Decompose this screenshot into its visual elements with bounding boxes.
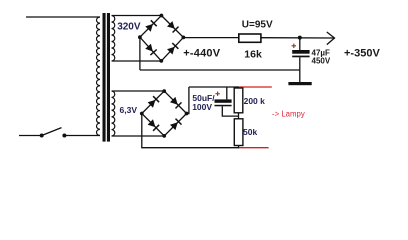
bridge rectifier B1 bbox=[138, 14, 185, 63]
wire bridge1 positive to resistor bbox=[183, 37, 238, 39]
svg-text:50k: 50k bbox=[243, 127, 257, 137]
switch S1 bbox=[40, 128, 67, 138]
wire junction to capacitor C1 bbox=[299, 38, 301, 50]
wire between divider resistors bbox=[238, 113, 240, 119]
resistor 16k bbox=[239, 34, 261, 42]
svg-text:16k: 16k bbox=[244, 49, 262, 61]
output arrow head bbox=[327, 32, 335, 45]
wire bridge1 negative down bbox=[139, 37, 141, 70]
wire secondary2 top to bridge2 AC top bbox=[112, 90, 164, 92]
wire secondary2 bottom to bridge2 AC bottom bbox=[112, 135, 164, 137]
wire bridge2 positive up to heater rail bbox=[187, 87, 189, 114]
svg-text:-> Lampy: -> Lampy bbox=[272, 110, 305, 119]
wire resistor to output arrow bbox=[261, 37, 334, 39]
transformer T1 core bbox=[103, 13, 111, 142]
svg-text:450V: 450V bbox=[312, 57, 331, 66]
svg-text:100V: 100V bbox=[192, 102, 212, 112]
resistor 200k bbox=[234, 88, 243, 113]
wire capacitor C2 to divider junction bbox=[222, 106, 238, 116]
capacitor C1 47uF 450V bbox=[292, 50, 309, 57]
wire switch to transformer primary bbox=[64, 135, 100, 137]
resistor 50k bbox=[234, 119, 243, 146]
bridge rectifier B2 bbox=[140, 89, 189, 138]
wire bridge2 negative down to bottom rail bbox=[142, 114, 239, 148]
svg-text:+-350V: +-350V bbox=[344, 47, 380, 59]
ground bbox=[288, 82, 311, 85]
capacitor C1 47uF polarity plus bbox=[292, 44, 296, 48]
red tap to lamps top bbox=[239, 86, 272, 88]
svg-text:320V: 320V bbox=[117, 21, 141, 32]
wire heater rail to capacitor C2 bbox=[226, 87, 228, 99]
capacitor C2 polarity plus bbox=[215, 92, 219, 96]
wire negative rail bbox=[140, 69, 300, 71]
svg-text:U=95V: U=95V bbox=[242, 19, 273, 30]
node junction at capacitor C1 bbox=[298, 36, 302, 40]
transformer T1 secondary 6.3V winding bbox=[112, 91, 115, 136]
svg-text:6,3V: 6,3V bbox=[120, 105, 138, 115]
red tap to lamps bottom bbox=[239, 147, 268, 149]
wire heater rail bbox=[189, 86, 239, 88]
capacitor C2 50uF 100V bbox=[215, 99, 232, 106]
transformer T1 secondary 320V winding bbox=[112, 16, 115, 62]
wire mains top bbox=[26, 16, 100, 18]
wire mains bottom to switch bbox=[19, 135, 42, 137]
svg-text:+-440V: +-440V bbox=[183, 47, 220, 59]
svg-text:200 k: 200 k bbox=[244, 96, 266, 106]
wire secondary1 top to bridge1 AC top bbox=[112, 15, 161, 17]
wire 50k to bottom rail bbox=[238, 146, 240, 149]
wire capacitor C1 to ground bbox=[299, 57, 301, 82]
transformer T1 primary winding bbox=[96, 17, 100, 136]
wire secondary1 bottom to bridge1 AC bottom bbox=[112, 60, 161, 62]
